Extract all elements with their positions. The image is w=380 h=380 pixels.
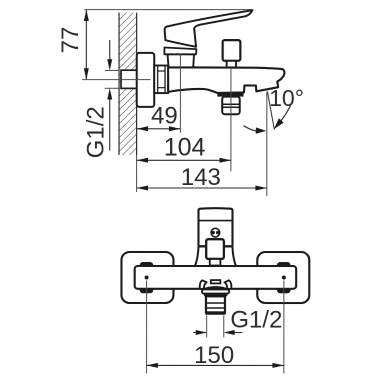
G1/2 dimension (front view) [193, 330, 242, 335]
wall edge extension line [136, 155, 138, 192]
tube extension lines [206, 316, 208, 338]
right connection center dot [282, 276, 286, 280]
extension line handle axis [179, 54, 181, 133]
handle (front view) [198, 208, 232, 247]
diverter knob (front view) [206, 239, 224, 259]
dimension 77 [57, 10, 89, 80]
svg-text:G1/2: G1/2 [83, 106, 110, 158]
body flare below handle right [232, 247, 235, 266]
svg-text:10°: 10° [269, 85, 304, 111]
right elbow nut behind barrel [277, 262, 291, 267]
spout chrome ring [202, 289, 229, 293]
dimension 150 [147, 342, 284, 369]
connection centerline [82, 79, 151, 81]
right wall plate [257, 252, 309, 303]
tilted 10-degree line [267, 92, 274, 130]
dimension 49 [137, 102, 181, 131]
extension line outlet axis [230, 68, 232, 171]
spout wings (front view) [200, 280, 207, 288]
svg-text:G1/2: G1/2 [230, 306, 282, 333]
in-wall pipe [121, 70, 138, 88]
svg-text:150: 150 [194, 342, 234, 369]
left wall plate [121, 252, 173, 303]
150 extension lines [146, 280, 148, 373]
svg-text:143: 143 [181, 164, 221, 191]
extension line aerator (143) [266, 92, 268, 196]
knob stem (front view) [210, 259, 221, 266]
body flare below handle left [195, 247, 198, 266]
cartridge housing [168, 54, 195, 67]
escutcheon (side view) [137, 53, 155, 107]
connection hex nut [154, 65, 168, 93]
dimension 143 [137, 164, 267, 191]
svg-text:104: 104 [164, 133, 206, 161]
svg-text:49: 49 [151, 102, 178, 129]
temperature indicator [211, 228, 220, 237]
angle arc right leader and arrowhead [281, 106, 291, 122]
G1/2 arrows [107, 40, 112, 151]
aerator tube (front view) [206, 296, 225, 312]
G1/2 ticks [105, 69, 120, 71]
barrel (front view) [135, 266, 297, 289]
cap band under lever [164, 47, 196, 54]
angle arc left leader and arrowhead [244, 126, 257, 131]
dimension 104 [137, 133, 231, 162]
top extension line (lever tip level) [84, 9, 252, 11]
knob stem (side view) [227, 61, 236, 68]
left elbow nut behind barrel [139, 262, 153, 267]
spout top notch [211, 280, 221, 283]
spout opening dark ellipse [203, 286, 228, 291]
wall hatch [119, 13, 137, 155]
faucet body barrel and spout (side view) [168, 67, 284, 93]
diverter knob (side view) [223, 40, 241, 61]
shower outlet [222, 97, 240, 115]
spout lower dark band [203, 294, 228, 297]
svg-text:77: 77 [57, 27, 84, 54]
handle lever (side view) [165, 10, 253, 47]
outlet collar [217, 93, 243, 97]
left connection center dot [145, 275, 149, 279]
